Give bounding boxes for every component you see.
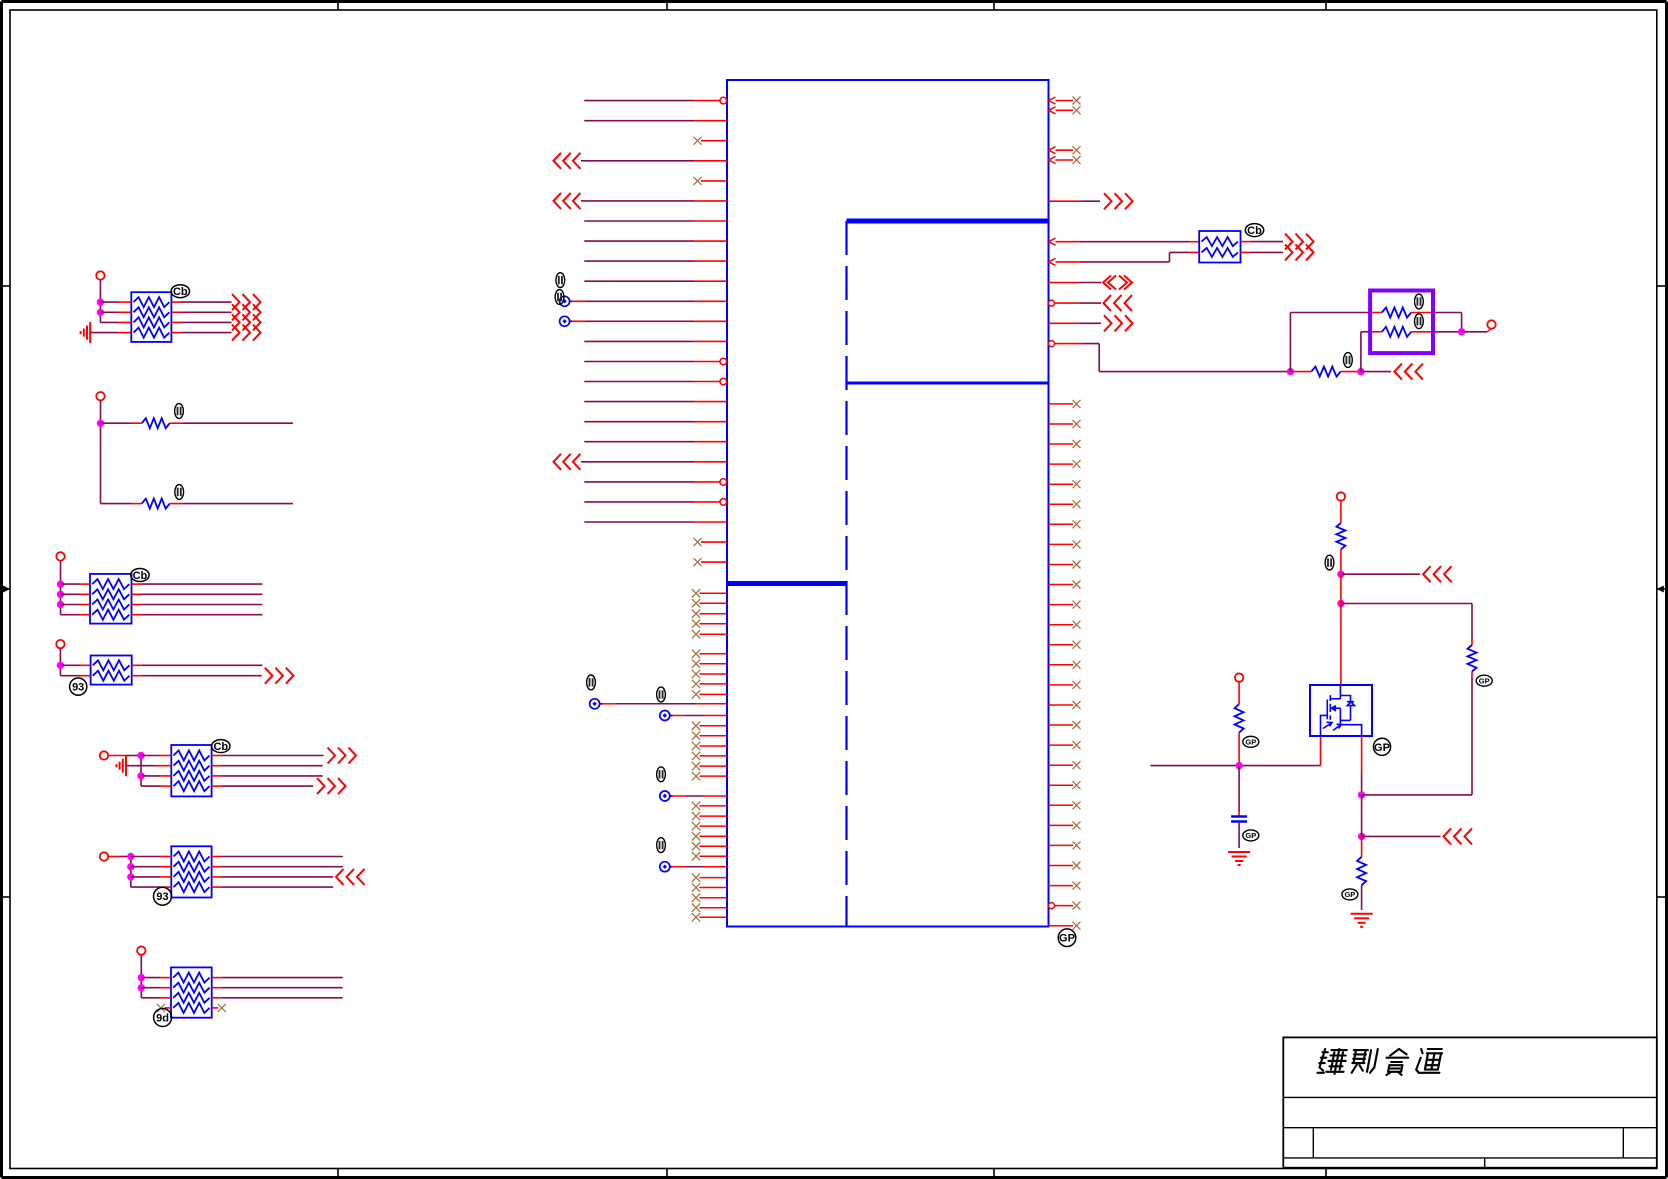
- R2 value label: [175, 485, 184, 500]
- R10 value label: [1415, 294, 1424, 309]
- U1 right pin y=504: [1049, 503, 1074, 505]
- svg-text:93: 93: [156, 891, 168, 903]
- U1 right pin y=464: [1049, 463, 1074, 465]
- U1 internal section line mid: [847, 382, 1049, 385]
- RP7 row4 no-connects: [157, 1004, 165, 1012]
- VCC symbol for RP5: [100, 751, 108, 759]
- company name text (CJK, drawn strokes): [1317, 1049, 1442, 1075]
- U1 left pin wire y=121: [584, 120, 694, 122]
- junction to feedback branch: [1338, 600, 1344, 606]
- RP6 reference label: [154, 887, 172, 905]
- U1 right pin y=524: [1049, 523, 1074, 525]
- RP1 output wires with off-page arrows: [171, 301, 181, 303]
- net-stub labels near upper connectors: [556, 273, 565, 288]
- U1 left pin y=704: [590, 699, 600, 709]
- R14 value label: [1243, 736, 1259, 747]
- svg-text:GP: GP: [1245, 737, 1256, 746]
- U1 left pin wire y=562: [694, 558, 702, 566]
- RP1 reference label: [171, 285, 189, 298]
- svg-text:9d: 9d: [156, 1013, 169, 1025]
- U1 left pin wire y=181: [694, 177, 702, 185]
- U1 left pin y=736: [692, 732, 700, 740]
- wire R1/R2 bus: [100, 400, 102, 503]
- U1 left pin wire y=141: [694, 137, 702, 145]
- VCC symbol for RP1: [96, 271, 104, 279]
- U1 left pin y=766: [692, 762, 700, 770]
- RP3 resistors: [92, 579, 129, 589]
- feedback resistor R13: [1471, 604, 1473, 641]
- wire branch up to R11: [1360, 332, 1362, 372]
- VCC symbol top: [1337, 492, 1345, 500]
- U1 left pin wire y=502: [584, 501, 694, 503]
- U1 left pin wire y=241: [584, 240, 694, 242]
- net-stub labels near dense connectors: [587, 675, 596, 690]
- U1 right pin y=765: [1049, 764, 1074, 766]
- U1 right pin to RP8 row2 (jog): [1049, 258, 1056, 265]
- VCC symbol gate divider: [1235, 673, 1243, 681]
- U1 left pin wire y=362: [584, 361, 694, 363]
- U1 left pin y=806: [692, 802, 700, 810]
- R13 value label: [1476, 675, 1492, 686]
- RP8 reference label: [1245, 224, 1263, 237]
- junction on gate net: [1236, 762, 1242, 768]
- U1 right pin y=564: [1049, 564, 1074, 566]
- R15 value label: [1342, 889, 1358, 900]
- U1 left pin y=684: [692, 680, 700, 688]
- U1 right pin y=424: [1049, 423, 1074, 425]
- U1 left pin wire y=442: [584, 441, 694, 443]
- U1 right pin y=544: [1049, 543, 1074, 545]
- VCC symbol for RP4: [56, 640, 64, 648]
- U1 left pin y=603: [692, 599, 700, 607]
- U1 right pin y=625: [1049, 624, 1074, 626]
- RP4 output wires: [132, 664, 142, 666]
- svg-text:Cb: Cb: [1247, 225, 1262, 237]
- U1 right pin off-page in y=303: [1049, 300, 1055, 306]
- gate filter capacitor C1: [1238, 766, 1240, 812]
- U1 right pin to divider circuit y=344: [1049, 341, 1055, 347]
- IC U1 body: [727, 80, 1049, 927]
- RP3 reference label: [131, 569, 149, 582]
- RP5 resistors: [174, 751, 210, 761]
- C1 value label: [1243, 830, 1259, 841]
- U1 left pin y=878: [692, 873, 700, 881]
- resistor pack RP6 box: [171, 846, 211, 897]
- U1 right pin y=805: [1049, 804, 1074, 806]
- U1 left pin y=694: [692, 690, 700, 698]
- U1 left pin y=908: [692, 904, 700, 912]
- VCC symbol for RP6: [100, 852, 108, 860]
- ground for RP1 row4: [89, 322, 91, 343]
- wire RP6 bus: [130, 857, 132, 888]
- R1 value label: [175, 404, 184, 419]
- VCC symbol for RP7: [137, 946, 145, 954]
- U1 right pin with off-page out y=201: [1049, 200, 1081, 202]
- U1 right pin y=444: [1049, 443, 1074, 445]
- U1 left pin y=836: [692, 832, 700, 840]
- U1 left pin y=726: [692, 722, 700, 730]
- U1 internal section line thick top: [847, 219, 1049, 224]
- U1 left pin y=888: [692, 883, 700, 891]
- U1 right pin y=866: [1049, 865, 1074, 867]
- U1 left pin y=776: [692, 772, 700, 780]
- gate pull-up resistor R14: [1238, 682, 1240, 704]
- svg-text:GP: GP: [1059, 933, 1075, 945]
- U1 left pin wire y=422: [584, 421, 694, 423]
- VCC symbol for RP3: [56, 552, 64, 560]
- svg-text:GP: GP: [1374, 742, 1390, 754]
- RP8 output wires with off-page arrows: [1241, 241, 1251, 243]
- R11 value label: [1415, 314, 1424, 329]
- U1 left pin y=654: [692, 650, 700, 658]
- Q1 internals: [1321, 685, 1362, 736]
- U1 right pin y=665: [1049, 664, 1074, 666]
- MOSFET Q1 box: [1310, 685, 1372, 736]
- resistor R11 (in pack box): [1370, 331, 1382, 333]
- U1 right pin y=785: [1049, 784, 1074, 786]
- U1 right pin y=886: [1049, 885, 1074, 887]
- U1 left pin wire y=522: [584, 521, 694, 523]
- junction: [1358, 368, 1364, 374]
- VCC symbol for R1/R2: [96, 392, 104, 400]
- wire to off-page in: [1361, 371, 1391, 373]
- U1 right pin bidirectional off-page y=282: [1049, 282, 1081, 284]
- wire gate into Q1: [1320, 736, 1322, 766]
- wire RP3 bus: [60, 561, 62, 615]
- Q1 drain wire: [1361, 736, 1363, 772]
- resistor R2: [101, 503, 132, 505]
- RP7 reference label: [154, 1009, 172, 1027]
- U1 internal dashed divider: [845, 221, 847, 927]
- RP7 output wires: [212, 977, 222, 979]
- U1 left pin y=796: [660, 791, 670, 801]
- U1 right pin y=705: [1049, 704, 1074, 706]
- U1 right pin y=906: [1049, 903, 1055, 909]
- svg-text:Cb: Cb: [173, 286, 188, 298]
- U1 right pin y=404: [1049, 403, 1074, 405]
- resistor R1: [101, 422, 132, 424]
- U1 right pin y=725: [1049, 724, 1074, 726]
- svg-text:GP: GP: [1479, 676, 1490, 685]
- junction to off-page: [1338, 571, 1344, 577]
- title block: [1283, 1037, 1657, 1167]
- U1 left pin wire y=201: [554, 193, 562, 209]
- resistor R12 pull-up: [1340, 501, 1342, 523]
- U1 left pin y=634: [692, 630, 700, 638]
- svg-text:93: 93: [72, 682, 84, 694]
- U1 left pin wire y=542: [694, 538, 702, 546]
- junction to off-page: [1358, 833, 1364, 839]
- U1 left pin wire y=321: [560, 316, 570, 326]
- U1 right pin off-page out y=323: [1049, 322, 1081, 324]
- junction drain/feedback: [1358, 792, 1364, 798]
- VCC symbol: [1487, 320, 1495, 328]
- wire RP7 bus: [140, 955, 142, 998]
- U1 left pin y=846: [692, 842, 700, 850]
- ground for RP5 row2: [125, 755, 127, 776]
- U1 left pin y=856: [692, 852, 700, 860]
- wire branch up to R10: [1289, 313, 1291, 372]
- U1 left pin y=716: [660, 711, 670, 721]
- RP4 reference label: [70, 678, 87, 695]
- resistor R9 (series): [1290, 371, 1311, 373]
- U1 left pin wire y=161: [554, 153, 562, 169]
- U1 left pin wire y=221: [584, 220, 694, 222]
- RP3 output wires: [132, 583, 142, 585]
- U1 left pin y=816: [692, 812, 700, 820]
- resistor pack RP5 box: [171, 745, 211, 796]
- U1 left pin y=756: [692, 752, 700, 760]
- U1 left pin wire y=482: [584, 481, 694, 483]
- U1 left pin y=674: [692, 670, 700, 678]
- U1 left pin y=826: [692, 822, 700, 830]
- U1 right pin y=745: [1049, 744, 1074, 746]
- resistor R10 (in pack box): [1370, 312, 1382, 314]
- Q1 reference label: [1373, 738, 1390, 755]
- svg-text:Cb: Cb: [133, 570, 148, 582]
- RP5 reference label: [212, 740, 230, 753]
- U1 left pin wire y=301: [560, 296, 570, 306]
- svg-text:Cb: Cb: [213, 741, 228, 753]
- purple highlight box: [1370, 291, 1433, 354]
- gate net wire: [1150, 765, 1320, 767]
- ground below R15: [1351, 913, 1373, 915]
- ground below C1: [1228, 851, 1250, 853]
- RP1 resistors: [134, 297, 170, 307]
- R9 value label: [1344, 353, 1353, 368]
- wire RP4 bus: [59, 648, 61, 675]
- U1 right pin y=585: [1049, 584, 1074, 586]
- junction at output node: [1458, 329, 1464, 335]
- wire down to Q1 source: [1340, 604, 1342, 686]
- wire RP1 bus: [99, 280, 101, 323]
- svg-text:GP: GP: [1344, 890, 1355, 899]
- svg-text:GP: GP: [1245, 831, 1256, 840]
- U1 left pin y=593: [692, 589, 700, 597]
- U1 right pin y=845: [1049, 844, 1074, 846]
- pull-down resistor R15: [1361, 836, 1363, 856]
- U1 right pin y=926: [1049, 925, 1074, 927]
- U1 left pin y=664: [692, 660, 700, 668]
- U1 left pin wire y=462: [554, 454, 562, 470]
- resistor pack RP8 box: [1199, 231, 1240, 263]
- U1 left pin wire y=382: [584, 381, 694, 383]
- U1 right pin y=825: [1049, 824, 1074, 826]
- U1 left pin y=917: [692, 913, 700, 921]
- junction: [1287, 368, 1293, 374]
- U1 left pin wire y=402: [584, 401, 694, 403]
- RP7 resistors: [173, 973, 209, 983]
- U1 internal section line thick left: [727, 581, 847, 586]
- U1 left pin wire y=341: [584, 340, 694, 342]
- resistor pack RP4 box: [91, 656, 132, 685]
- U1 left pin y=624: [692, 620, 700, 628]
- wire R10 to output node: [1433, 312, 1462, 314]
- RP8 resistors: [1202, 237, 1239, 246]
- resistor pack RP7 box: [171, 967, 212, 1017]
- U1 left pin wire y=281: [584, 280, 694, 282]
- U1 left pin y=614: [692, 610, 700, 618]
- U1 right pin to RP8 row1: [1049, 238, 1056, 245]
- U1 left pin wire y=101: [584, 100, 694, 102]
- RP4 resistors: [93, 660, 130, 670]
- U1 right pin y=685: [1049, 684, 1074, 686]
- U1 right pin y=484: [1049, 483, 1074, 485]
- U1 reference label GP: [1058, 929, 1076, 947]
- RP6 resistors: [174, 852, 210, 862]
- U1 right pin y=645: [1049, 644, 1074, 646]
- wire RP5 bus: [140, 756, 142, 787]
- U1 left pin wire y=261: [584, 260, 694, 262]
- U1 left pin y=746: [692, 742, 700, 750]
- R12 value label: [1325, 555, 1334, 570]
- wire from U1 pin down to divider net: [1098, 344, 1100, 372]
- wire to VCC: [1462, 331, 1487, 333]
- RP6 output wires: [212, 856, 222, 858]
- U1 left pin y=867: [660, 862, 670, 872]
- U1 left pin y=898: [692, 894, 700, 902]
- resistor pack RP1 box: [131, 292, 171, 342]
- resistor pack RP3 box: [90, 574, 132, 624]
- U1 right pin pair with no-connects y=100: [1049, 97, 1056, 104]
- RP5 output wires: [212, 755, 222, 757]
- U1 right pin y=605: [1049, 604, 1074, 606]
